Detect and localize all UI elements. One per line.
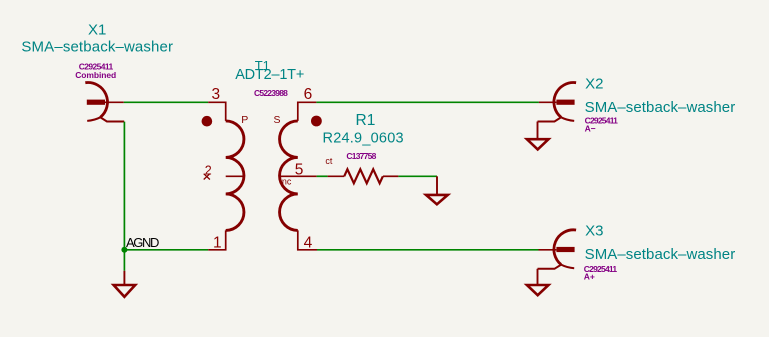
resistor R1 [328,169,399,183]
wire X1 pin to T1 pin 3 [124,101,208,103]
wire AGND rail to T1 pin 1 [124,249,208,251]
X2 shield stem [537,122,539,140]
svg-text:5: 5 [295,162,304,179]
wire T1 pin 6 to X2 [316,101,539,103]
pin 2 DNC cross [204,174,210,180]
svg-text:X3: X3 [585,223,603,240]
svg-text:1: 1 [213,235,222,252]
svg-text:X1: X1 [88,21,106,38]
svg-text:A+: A+ [584,271,595,281]
svg-text:SMA–setback–washer: SMA–setback–washer [21,39,173,56]
ground symbol below AGND [114,271,136,297]
transformer T1 secondary winding [280,121,298,230]
svg-text:S: S [274,114,281,126]
X3 shield stem [537,269,539,285]
svg-text:X2: X2 [585,75,603,92]
svg-text:AGND: AGND [126,235,159,250]
transformer T1 secondary polarity dot [311,116,322,127]
svg-text:R1: R1 [356,112,376,129]
wire X1 shield down to AGND rail [123,122,125,250]
svg-text:6: 6 [304,86,313,103]
svg-text:ADT2–1T+: ADT2–1T+ [235,67,304,83]
connector X3 body [538,230,577,269]
connector X2 body [538,83,577,122]
svg-text:ct: ct [325,156,333,166]
svg-text:A−: A− [585,124,596,134]
transformer T1 primary winding [226,121,244,230]
transformer T1 right pin 6 [298,102,317,121]
transformer T1 left pin 3 [208,102,226,121]
svg-text:SMA–setback–washer: SMA–setback–washer [585,99,736,116]
wire junction down to ground [123,250,125,271]
svg-text:nc: nc [282,177,292,187]
transformer T1 left pin 1 [208,230,226,249]
svg-text:P: P [241,114,248,126]
ground symbol at X2 [527,139,549,149]
svg-text:C5223988: C5223988 [254,88,288,98]
svg-text:4: 4 [304,235,313,252]
wire R1 to ground [398,175,437,177]
connector X1 body [85,83,124,122]
transformer T1 pin 2 center tap line [226,175,244,177]
transformer T1 primary polarity dot [202,116,213,127]
wire T1 pin 4 to X3 [317,249,539,251]
ground symbol at X3 [527,285,549,295]
ground symbol at R1 [426,176,448,204]
transformer T1 right pin 4 [298,230,317,249]
svg-text:C137758: C137758 [346,151,376,161]
svg-text:SMA–setback–washer: SMA–setback–washer [585,246,736,263]
svg-text:Combined: Combined [75,70,116,80]
svg-text:3: 3 [212,86,221,103]
transformer T1 pin 5 center tap line [280,175,317,177]
junction AGND [121,247,127,253]
wire T1 pin 5 to R1 [317,175,328,177]
svg-text:R24.9_0603: R24.9_0603 [323,131,404,147]
